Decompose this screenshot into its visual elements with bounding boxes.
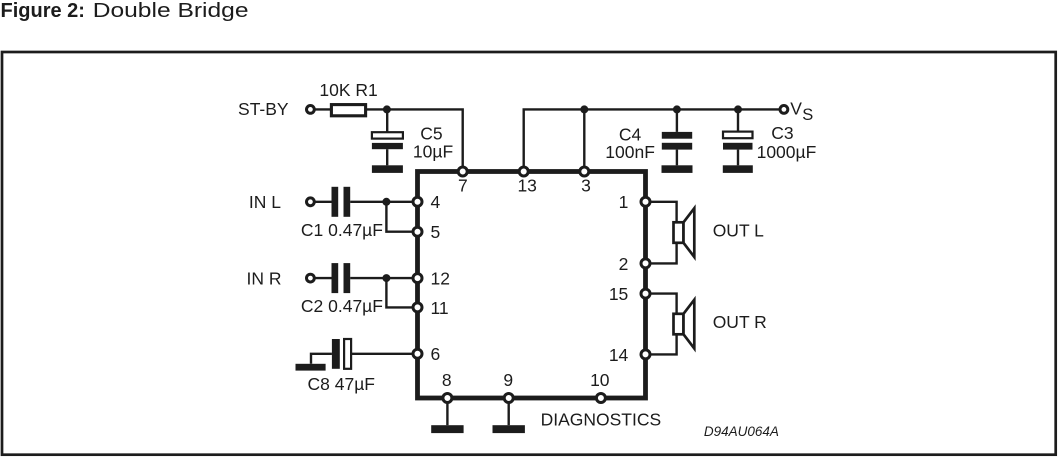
value label 10K R1 (319, 80, 377, 100)
node junction rail/C4 (673, 105, 681, 113)
ground C3 (723, 165, 753, 173)
pin 7 (458, 167, 468, 196)
value label C1 0.47uF (301, 220, 383, 240)
wire junction to pin 5 (386, 202, 417, 232)
pin 2 (619, 254, 650, 274)
pin 6 (413, 344, 440, 364)
label IN R (247, 268, 282, 288)
label OUT R (713, 312, 767, 332)
svg-text:1000µF: 1000µF (757, 142, 817, 162)
svg-text:IN R: IN R (247, 268, 282, 288)
svg-text:7: 7 (458, 176, 468, 196)
svg-text:OUT L: OUT L (713, 221, 764, 241)
svg-text:OUT R: OUT R (713, 312, 767, 332)
IC U1 body (418, 172, 646, 399)
speaker OUT R (674, 300, 695, 349)
svg-text:4: 4 (431, 192, 441, 212)
svg-text:5: 5 (431, 222, 441, 242)
node junction R1/C5 (383, 105, 391, 113)
svg-text:D94AU064A: D94AU064A (704, 424, 779, 439)
speaker OUT L (674, 208, 695, 257)
svg-text:Figure 2:: Figure 2: (1, 0, 85, 22)
value label C8 47uF (308, 374, 375, 394)
label DIAGNOSTICS (541, 409, 662, 429)
terminal IN L (307, 198, 332, 206)
pin 15 (609, 284, 650, 304)
resistor R1 (331, 105, 365, 116)
svg-text:C2 0.47µF: C2 0.47µF (301, 296, 383, 316)
svg-text:2: 2 (619, 254, 629, 274)
capacitor C4 (662, 109, 692, 165)
pin 5 (413, 222, 440, 242)
svg-text:12: 12 (431, 269, 450, 289)
svg-text:14: 14 (609, 345, 629, 365)
svg-text:6: 6 (431, 344, 441, 364)
svg-text:1: 1 (619, 192, 629, 212)
pin 1 (619, 192, 650, 212)
capacitor C1 (332, 187, 418, 217)
pin 9 (503, 370, 513, 403)
net label VS (790, 99, 813, 124)
svg-text:ST-BY: ST-BY (238, 99, 289, 119)
svg-text:13: 13 (517, 176, 536, 196)
node junction C2/pin12/pin11 (382, 274, 390, 282)
svg-text:100nF: 100nF (605, 142, 655, 162)
svg-text:10: 10 (590, 370, 610, 390)
wire pin 14 to speaker OUT R (646, 334, 677, 354)
terminal VS (780, 106, 788, 114)
svg-text:C8 47µF: C8 47µF (308, 374, 375, 394)
wire pin 1 to speaker OUT L (646, 202, 677, 223)
svg-text:10K R1: 10K R1 (319, 80, 377, 100)
wire pin 2 to speaker OUT L (646, 243, 677, 264)
svg-text:Double Bridge: Double Bridge (93, 0, 249, 22)
label IN L (249, 192, 281, 212)
svg-text:IN L: IN L (249, 192, 281, 212)
ground C8 (296, 354, 332, 371)
svg-text:11: 11 (431, 298, 449, 318)
wire pin 15 to speaker OUT R (646, 294, 677, 314)
svg-text:9: 9 (503, 370, 513, 390)
value label C5 10uF (413, 123, 453, 161)
pin 8 (442, 370, 452, 403)
capacitor C2 (332, 263, 418, 293)
node junction C1/pin4/pin5 (382, 198, 390, 206)
wire R1 to pin 7 (365, 109, 462, 171)
ground pin 9 (493, 398, 525, 433)
svg-text:10µF: 10µF (413, 142, 453, 162)
pin 14 (609, 345, 650, 365)
terminal ST-BY (307, 106, 331, 114)
svg-text:C5: C5 (420, 123, 442, 143)
label D94AU064A (704, 424, 779, 439)
svg-text:C1 0.47µF: C1 0.47µF (301, 220, 383, 240)
pin 4 (413, 192, 441, 212)
wire junction to pin 11 (386, 278, 417, 307)
value label C3 1000uF (757, 123, 817, 162)
pin 12 (413, 269, 450, 289)
title Figure 2: Double Bridge (1, 0, 249, 22)
ground pin 8 (431, 398, 463, 433)
svg-text:8: 8 (442, 370, 452, 390)
svg-text:V: V (790, 99, 802, 119)
label ST-BY (238, 99, 289, 119)
node junction rail/C3 (734, 105, 742, 113)
svg-text:DIAGNOSTICS: DIAGNOSTICS (541, 409, 662, 429)
svg-text:3: 3 (581, 176, 591, 196)
wire riser pin 3 (583, 109, 585, 171)
label OUT L (713, 221, 764, 241)
capacitor C5 (372, 109, 403, 165)
svg-text:S: S (802, 106, 813, 124)
wire Vs rail (524, 109, 784, 171)
capacitor C3 (723, 109, 753, 165)
value label C2 0.47uF (301, 296, 383, 316)
ground C4 (662, 165, 693, 173)
pin 11 (413, 298, 449, 318)
pin 10 (590, 370, 610, 403)
svg-text:15: 15 (609, 284, 628, 304)
pin 13 (517, 167, 536, 196)
pin 3 (580, 167, 591, 196)
node junction rail/pin3 (580, 105, 588, 113)
ground C5 (372, 165, 403, 173)
value label C4 100nF (605, 124, 655, 162)
terminal IN R (307, 274, 332, 282)
capacitor C8 (332, 339, 418, 369)
svg-text:C3: C3 (771, 123, 793, 143)
